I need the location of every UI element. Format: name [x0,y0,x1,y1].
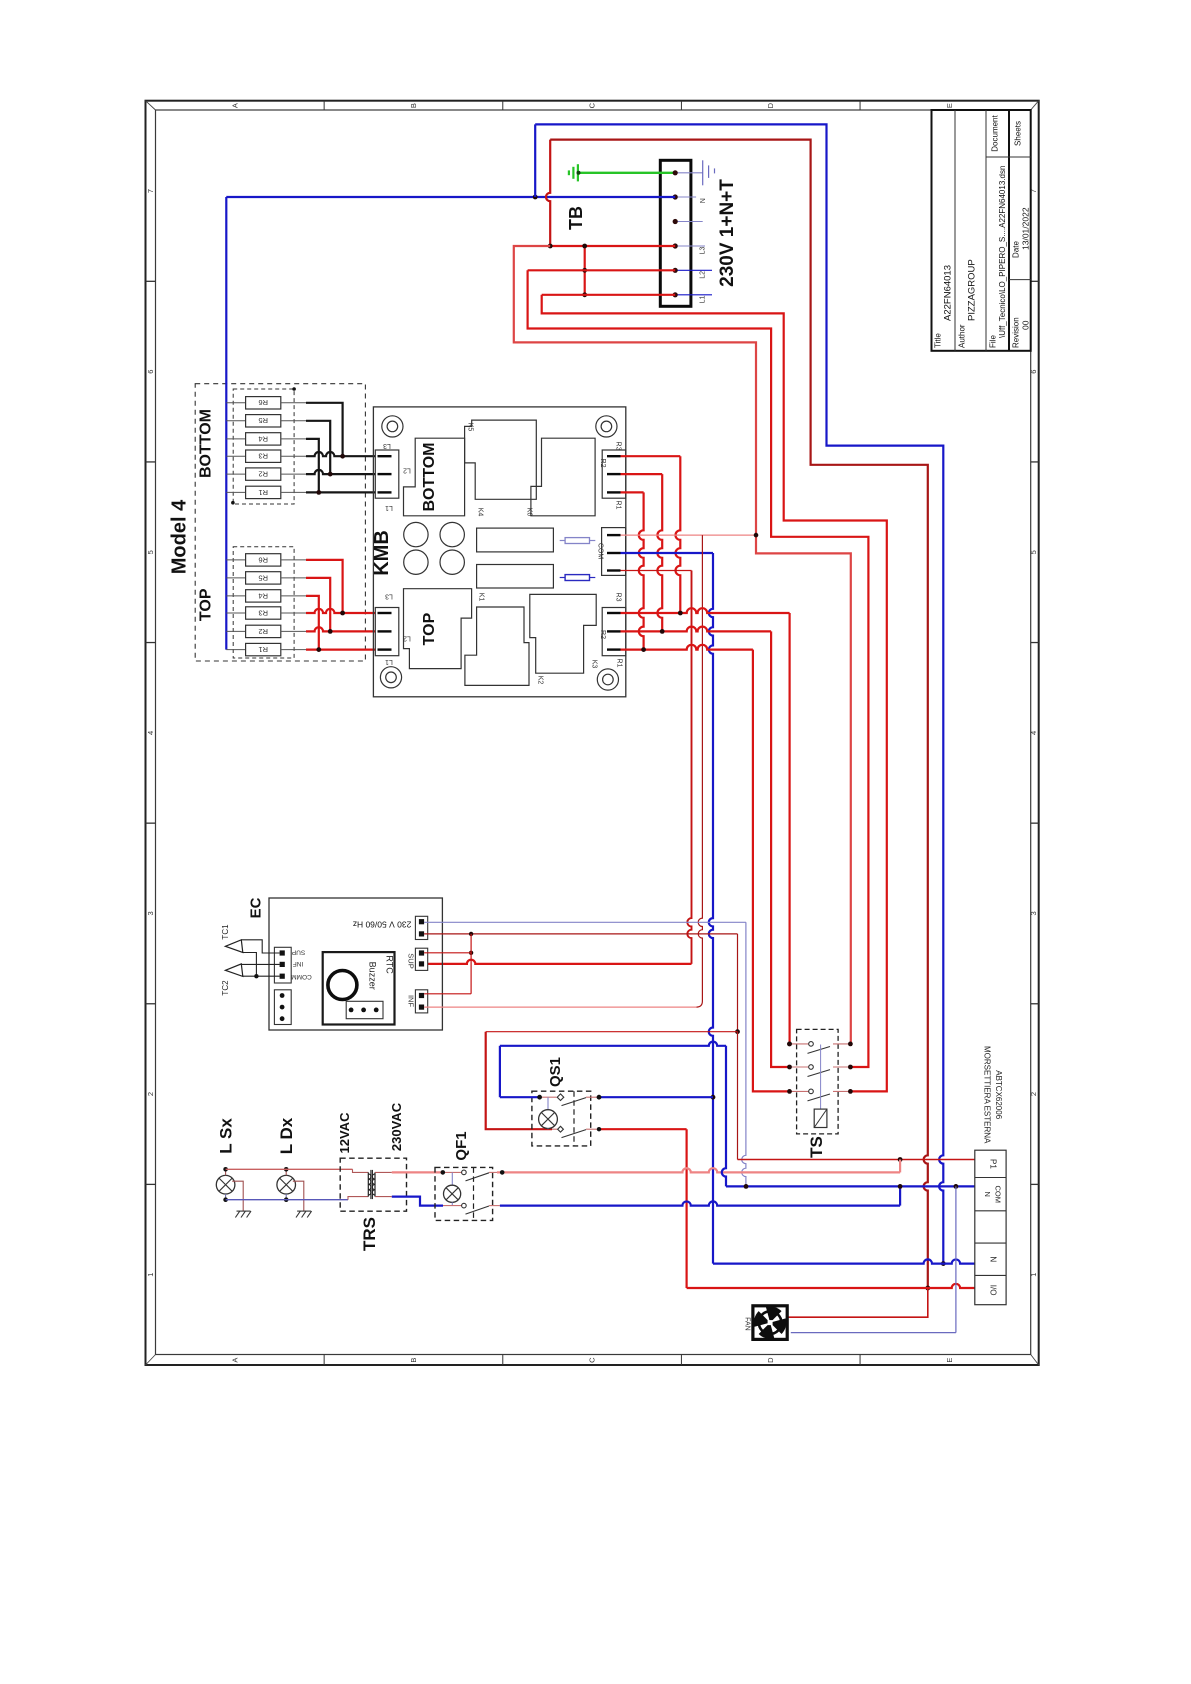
relay outline BOTTOM zone [404,438,465,516]
wire TOP bank R4 jumper [306,596,319,650]
svg-text:COM: COM [597,543,604,560]
ground symbol green earth left of TB [577,164,579,181]
svg-text:TRS: TRS [360,1217,379,1251]
EC SUP connector 2-pin [415,948,427,970]
title block column divider Revision/Date [1009,279,1031,281]
wire KMB TOP R3 line to TS [621,608,790,613]
svg-text:L2: L2 [403,467,411,474]
svg-text:Title: Title [934,333,943,348]
wire EC tie vertical [470,934,472,994]
TB terminal L3 stub [675,245,705,247]
frame zone ticks top edge [323,101,325,110]
wire TC2 plus to INF [241,963,279,965]
TRS primary winding [367,1172,369,1196]
TB terminal L1 stub [675,294,712,296]
svg-text:TOP: TOP [197,588,214,621]
relay outline TOP zone [404,589,472,669]
svg-text:7: 7 [146,189,155,193]
node EC ties [469,932,473,936]
svg-text:L3: L3 [700,247,707,255]
EC power connector 2-pin [415,916,427,939]
KMB connector L top-zone [375,608,399,656]
svg-text:Author: Author [958,324,967,348]
wire P1 line to terminal [738,1159,975,1161]
TB terminal 3 stub [675,221,703,223]
svg-text:N: N [700,198,707,203]
wire KMB R3 bottom-zone to top-zone [621,455,681,457]
svg-text:QF1: QF1 [453,1131,470,1160]
wire TOP bank phase line 3 [306,609,375,613]
wire KMB COM pin2 blue to QS1 and N [621,552,714,554]
svg-text:L2: L2 [700,271,707,279]
nodes on N COM line [744,1184,749,1189]
svg-text:R4: R4 [258,591,268,600]
wire BOTTOM bank phase line 3 [306,452,375,456]
wire QF1 blue output neutral line [489,1205,500,1207]
relay K1 K2 outline [465,607,529,685]
wire EC power pin2 dark red [424,933,737,935]
svg-text:R3: R3 [615,442,622,451]
transformer TRS dashed box [340,1158,406,1211]
svg-text:R1: R1 [616,659,623,668]
svg-text:5: 5 [1029,550,1038,554]
svg-text:D: D [766,102,775,108]
svg-text:A: A [230,103,239,108]
EC INF connector 2-pin [415,990,427,1013]
svg-text:R3: R3 [258,452,268,461]
KMB center circles [404,522,428,546]
resistor R5 BOTTOM bank [226,420,245,422]
svg-text:KMB: KMB [371,530,393,576]
svg-text:SUP: SUP [407,953,416,968]
title block row divider File/Revision thick [1008,110,1010,351]
QF1 bottom pole [443,1205,462,1207]
Model 4 outer dashed box [195,384,365,661]
TS pole 3 [790,1090,809,1092]
svg-text:3: 3 [1029,911,1038,915]
svg-text:BOTTOM: BOTTOM [421,442,438,511]
node TC commons [254,974,258,978]
wire TRS 230VAC pink to QF1 [392,1171,441,1173]
wire L1 loop to TS bottom right [542,295,887,1092]
svg-text:13/01/2022: 13/01/2022 [1021,207,1031,250]
svg-text:R2: R2 [599,630,606,639]
wire blue into QS1 [500,1096,540,1098]
KMB connector L bottom-zone [375,450,399,498]
wire EC 230V line down to junction 1031 [737,934,739,1032]
terminal strip MORSETTIERA outline [975,1150,1006,1305]
svg-text:K2: K2 [537,676,544,685]
wire neutral riser joins N COM [899,1186,901,1205]
svg-text:TC1: TC1 [221,924,230,940]
wire blue neutral bus down Model 4 [225,197,227,650]
TOP resistor group dashed box [233,547,294,658]
wire lamps blue bottom line to TRS [226,1199,348,1201]
svg-text:Revision: Revision [1012,317,1021,348]
wire pink riser to P1 line [899,1160,901,1173]
svg-text:4: 4 [1029,731,1038,735]
resistor R6 BOTTOM bank [226,402,245,404]
wire KMB R1 bottom-zone to top-zone [621,491,644,493]
lamp L Dx [277,1175,296,1194]
resistor R1 BOTTOM bank [226,491,245,493]
svg-text:Model 4: Model 4 [169,499,191,574]
svg-text:R2: R2 [258,470,268,479]
ground chassis below L Sx [232,1181,243,1211]
frame zone ticks right edge [1031,280,1039,282]
wire QS1 feed riser [486,1032,552,1130]
wire P1 feed down from junction [737,1032,739,1160]
hop red long vertical over P1 and NCOM lines [924,1150,928,1288]
KMB mounting holes [382,416,403,437]
node COM blue at QS1 line [711,1095,716,1100]
svg-text:R6: R6 [258,555,268,564]
svg-text:K5: K5 [467,423,474,432]
wire L2 loop to TS middle right [528,270,869,1067]
wire N line to terminal [713,1259,975,1263]
svg-text:C: C [588,102,597,108]
QS1 lamp [547,1097,549,1110]
svg-text:4: 4 [146,731,155,735]
svg-text:L3: L3 [385,592,393,599]
wire BOTTOM bank R5 jumper [306,421,330,474]
wire TOP bank R5 jumper [306,578,330,632]
wire QS1 output red to I/O [586,1128,599,1130]
svg-text:R4: R4 [258,434,268,443]
wire red drop to FAN feed [787,1288,928,1317]
wire TB phase jumper L3-L2-L1 [584,246,586,295]
QF1 lamp [451,1172,453,1185]
svg-text:N: N [989,1256,998,1262]
svg-text:C: C [588,1357,597,1363]
ground chassis below L Dx [293,1181,304,1211]
svg-text:6: 6 [1029,370,1038,374]
node red long vertical at I/O line [925,1286,930,1291]
relay K5 outline [465,420,537,499]
resistor R2 BOTTOM bank [226,473,245,475]
wire TRS 230VAC blue to QF1 [392,1197,443,1206]
wire QS1 output blue [586,1096,599,1098]
node junction 1031 [735,1029,740,1034]
QS1 bottom contact diamond [558,1126,564,1132]
buzzer module outline [323,952,395,1024]
svg-text:File: File [989,335,998,348]
svg-text:TC2: TC2 [221,980,230,996]
svg-text:BOTTOM: BOTTOM [197,409,214,478]
wire neutral bridge riser to QS1 [499,1046,501,1097]
relay K6 outline [531,438,595,516]
wire BOTTOM bank R4 jumper [306,439,319,493]
lamp L Sx [216,1175,235,1194]
wire FAN neutral riser [955,1186,957,1332]
drawing frame inner border [156,110,1031,1355]
TB terminal 1 stub to right ground [675,172,703,174]
TRS core [370,1170,372,1199]
thermostat TS dashed box [797,1029,839,1134]
svg-text:INF: INF [293,960,304,967]
wire KMB COM pin3 to EC SUP [621,570,692,572]
wire blue riser to top loop [534,124,536,197]
wire BOTTOM bank R6 jumper [306,403,343,456]
KMB connector COM [602,528,626,576]
svg-text:2: 2 [146,1092,155,1096]
wire TC1 minus to COMM [243,953,257,977]
wire TB L3 row [550,245,675,247]
thermocouple TC1 [225,940,242,953]
svg-text:R1: R1 [258,645,268,654]
title block row divider Author/File [985,110,987,351]
breaker QF1 dashed box [435,1167,493,1220]
svg-text:R6: R6 [258,398,268,407]
svg-text:COMM: COMM [291,973,312,980]
TRS primary connections [353,1169,369,1172]
svg-text:I/O: I/O [989,1285,998,1296]
resistor violet on board [560,540,565,542]
resistor R1 TOP bank [226,649,245,651]
node blue vertical joins N line [941,1261,946,1266]
wire BOTTOM bank phase line 1 [306,491,375,493]
ground symbol right of TB terminal 1 [702,160,704,185]
resistor blue on board [560,577,565,579]
TS pole 1 [790,1043,809,1045]
terminal block TB outline [660,160,691,306]
node dashed corner dots [292,387,296,391]
FAN symbol [753,1306,787,1340]
EC board outline [269,898,442,1030]
svg-text:1: 1 [146,1273,155,1277]
svg-text:QS1: QS1 [547,1057,564,1087]
wire red TB loop riser [546,140,550,246]
thermocouple TC2 [225,964,242,977]
svg-text:5: 5 [146,550,155,554]
svg-text:MORSETTIERA ESTERNA: MORSETTIERA ESTERNA [982,1046,991,1144]
wire TS top left feed [787,1042,792,1047]
svg-text:L2: L2 [403,635,411,642]
resistor R6 TOP bank [226,559,245,561]
svg-text:TOP: TOP [421,612,438,645]
svg-text:6: 6 [146,370,155,374]
svg-text:E: E [945,1358,954,1363]
node TB N branch [533,195,538,200]
title block column divider Document-Sheets bottom [986,156,1031,158]
svg-text:ABTCX62006: ABTCX62006 [994,1070,1003,1119]
wire EC INF pin2 pink [424,1006,696,1008]
EC connector aux 3-pin [274,990,291,1025]
wire KMB TOP R1 line to TS [621,645,753,650]
wire EC SUP pin1 [424,952,471,954]
svg-text:A: A [230,1358,239,1363]
KMB middle module rectangles [477,528,554,552]
svg-text:L Dx: L Dx [277,1117,296,1154]
svg-text:RTC: RTC [385,955,395,974]
wire blue top loop to right side [535,124,943,1150]
TB terminal N stub [675,196,696,198]
wire TC1 plus to SUP [241,940,279,953]
TRS secondary connections [375,1171,392,1173]
wire TB N to blue bus left run [226,196,535,198]
node QS1 red output [597,1127,601,1131]
wire TOP bank phase line 1 [306,648,375,650]
svg-text:COM: COM [994,1185,1003,1203]
svg-text:L3: L3 [383,442,391,449]
svg-text:E: E [945,103,954,108]
svg-text:B: B [409,103,418,108]
QS1 top contact diamond [557,1094,564,1101]
svg-text:K4: K4 [477,508,484,517]
frame corner diagonals [146,101,156,110]
svg-text:PIZZAGROUP: PIZZAGROUP [967,259,978,321]
svg-text:K6: K6 [526,508,533,517]
svg-text:Sheets: Sheets [1014,121,1023,146]
frame zone ticks left edge [146,280,156,282]
svg-text:K3: K3 [591,660,598,669]
resistor R4 BOTTOM bank [226,438,245,440]
TS pole 2 [790,1066,809,1068]
svg-text:INF: INF [407,995,416,1008]
svg-text:R5: R5 [258,416,268,425]
resistor R5 TOP bank [226,577,245,579]
KMB connector R bottom-zone [602,450,626,498]
svg-text:R2: R2 [599,459,606,468]
wire red top loop right and down to I/O [550,140,928,1150]
svg-text:L1: L1 [385,658,393,665]
svg-text:P1: P1 [989,1159,998,1169]
wire N COM line to terminal [726,1185,975,1187]
TS actuator line [820,1045,822,1110]
svg-text:1: 1 [1029,1273,1038,1277]
svg-text:230VAC: 230VAC [389,1102,404,1151]
wire KMB TOP R2 line to TS [621,627,772,632]
QS1 top blade [562,1098,587,1106]
wire BOTTOM bank phase line 2 [306,470,375,474]
wire TOP bank R6 jumper [306,560,343,613]
KMB connector R top-zone [602,608,626,656]
wire TC2 minus to COMM [243,975,280,977]
resistor R3 TOP bank [226,612,245,614]
wire EC power pin1 violet [424,921,746,923]
svg-text:00: 00 [1021,320,1031,330]
svg-text:Date: Date [1012,241,1021,258]
svg-text:EC: EC [248,897,265,918]
wire I/O line to terminal [687,1284,975,1288]
svg-text:D: D [766,1357,775,1363]
wire neutral bridge down to N COM line [722,1046,726,1187]
svg-text:R3: R3 [615,593,622,602]
node P1 pink riser joint [898,1157,903,1162]
TS element [814,1109,827,1127]
wire KMB R2 bottom-zone to top-zone [621,473,663,475]
svg-text:R5: R5 [258,573,268,582]
EC connector COMM-INF-SUP [274,947,291,983]
svg-text:SUP: SUP [292,949,305,956]
resistor R2 TOP bank [226,630,245,632]
QS1 bottom blade [562,1130,587,1138]
wire green earth to TB terminal 1 [579,172,676,174]
svg-text:A22FN64013: A22FN64013 [943,265,954,321]
svg-text:L1: L1 [385,504,393,511]
wire L3 loop lighter red to TS top right [514,246,851,1044]
wire vertical from COM pin1 line to EC INF merge [698,535,702,1001]
QF1 top pole [441,1171,462,1173]
wire violet down right side to N COM [742,922,746,1186]
svg-text:R2: R2 [258,627,268,636]
frame zone ticks bottom edge [323,1355,325,1366]
wire TOP bank phase line 2 [306,627,375,631]
wire neutral bridge across EC [500,1042,726,1046]
QS1 dashed box [532,1091,591,1146]
svg-text:L1: L1 [700,295,707,303]
svg-text:2: 2 [1029,1092,1038,1096]
resistor R3 BOTTOM bank [226,455,245,457]
svg-text:R1: R1 [615,501,622,510]
BOTTOM resistor group dashed box [233,389,294,504]
svg-text:FAN: FAN [744,1317,751,1331]
svg-text:\Uff_Tecnico\LO_PIPERO_S....A2: \Uff_Tecnico\LO_PIPERO_S....A22FN64013.d… [998,166,1007,338]
svg-text:Document: Document [991,114,1000,151]
KMB board outline [373,407,625,697]
relay K3 outline [530,594,596,673]
buzzer 3-pin connector [346,1001,383,1018]
wire FAN blue violet [791,1332,956,1334]
svg-text:Buzzer: Buzzer [368,962,378,990]
svg-text:230 V 50/60 Hz: 230 V 50/60 Hz [353,919,412,929]
svg-text:R1: R1 [258,488,268,497]
svg-text:230V 1+N+T: 230V 1+N+T [717,179,738,287]
title block row divider Title/Author [954,110,956,351]
buzzer ring [328,971,357,1000]
svg-text:K1: K1 [478,593,485,602]
TB terminal L2 stub [675,269,712,271]
svg-text:3: 3 [146,911,155,915]
svg-text:R3: R3 [258,608,268,617]
svg-text:TB: TB [566,206,586,230]
TB terminal dots [673,170,678,175]
wire TB L2 row [528,269,676,271]
wire EC INF pin1 [424,993,471,995]
svg-text:N: N [983,1191,992,1196]
svg-text:12VAC: 12VAC [337,1112,352,1154]
svg-text:B: B [409,1358,418,1363]
wire KMB COM pin1 pink to L3 loop [621,534,757,536]
svg-text:L Sx: L Sx [217,1118,236,1154]
TRS secondary winding [374,1172,376,1196]
hop blue long vertical over P1 line [939,1150,943,1264]
wire TB L1 row [542,294,676,296]
wire junction line 1031 to QS1 feed [486,1031,738,1033]
drawing frame outer border [146,101,1039,1365]
wire QF1 pink output to P1 riser [489,1171,497,1173]
resistor R4 TOP bank [226,595,245,597]
title block outline [932,110,1031,351]
svg-text:TS: TS [807,1136,826,1158]
wire lamps red top line to TRS [226,1168,353,1170]
